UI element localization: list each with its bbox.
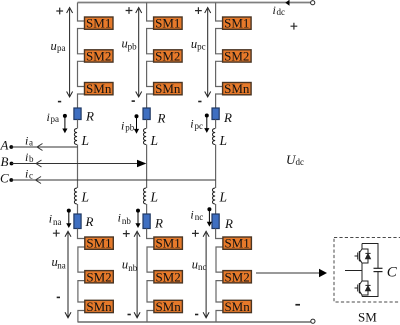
- svg-text:nc: nc: [195, 212, 204, 222]
- arrowhead i_a: [37, 144, 43, 151]
- SM1 lower arm c: [223, 236, 252, 251]
- svg-text:a: a: [29, 138, 33, 148]
- svg-text:i: i: [25, 150, 28, 164]
- wire: L to R lower c: [215, 204, 217, 214]
- SMn upper arm a: [85, 81, 114, 96]
- wire: SM cell frame: [345, 244, 378, 297]
- wire: phase-a middle leg: [77, 145, 79, 189]
- svg-text:pa: pa: [57, 43, 66, 53]
- inductor L lower a: [74, 188, 77, 204]
- wire: line C: [11, 179, 215, 181]
- bottom DC bus: [78, 321, 311, 323]
- SM2 upper arm c: [223, 49, 252, 64]
- plus sign DC: [291, 23, 298, 30]
- svg-text:R: R: [85, 214, 94, 229]
- capacitor C: [374, 267, 383, 269]
- i_dc arrow: [285, 0, 289, 6]
- svg-text:i: i: [25, 134, 28, 148]
- SM2 lower arm a: [85, 269, 114, 284]
- inductor L upper b: [143, 129, 146, 145]
- SMn lower arm b: [154, 299, 183, 314]
- minus sign DC: [295, 304, 300, 306]
- svg-text:pa: pa: [51, 114, 60, 124]
- IGBT T2: [355, 280, 363, 297]
- svg-text:R: R: [223, 110, 232, 125]
- resistor R lower b: [143, 214, 150, 229]
- plus sign lower c: [192, 230, 199, 237]
- svg-text:na: na: [57, 260, 65, 270]
- wire: line B: [12, 163, 139, 165]
- svg-text:u: u: [192, 258, 198, 272]
- wire: R to L upper b: [146, 120, 148, 129]
- minus sign lower c: [195, 314, 198, 316]
- inductor L lower c: [212, 188, 215, 204]
- SM2 upper arm b: [154, 49, 183, 64]
- wire: phase-a lower leg: [78, 229, 85, 323]
- u_pc measure arrow: [205, 8, 211, 98]
- wire: phase-a upper leg: [78, 3, 85, 109]
- arrowhead line B into leg: [137, 160, 146, 167]
- svg-text:nb: nb: [128, 263, 138, 273]
- resistor R lower c: [212, 214, 219, 229]
- plus sign upper b: [126, 7, 133, 14]
- svg-text:na: na: [53, 217, 62, 227]
- i_pa indicator: [62, 114, 67, 133]
- svg-text:R: R: [154, 216, 163, 231]
- svg-text:pc: pc: [195, 121, 204, 131]
- plus sign upper c: [195, 7, 202, 14]
- minus sign upper a: [58, 101, 61, 103]
- minus sign upper b: [132, 100, 135, 102]
- svg-text:pc: pc: [197, 41, 206, 51]
- resistor R upper a: [74, 108, 81, 120]
- wire: L to R lower a: [77, 204, 79, 214]
- wire: phase-b middle leg: [146, 145, 148, 189]
- inductor L lower b: [143, 188, 146, 204]
- SM1 lower arm a: [85, 236, 114, 251]
- resistor R lower a: [74, 214, 81, 229]
- plus sign upper a: [56, 8, 63, 15]
- svg-text:b: b: [29, 154, 34, 164]
- u_nc measure arrow: [203, 231, 209, 317]
- wire: L to R lower b: [146, 204, 148, 214]
- svg-text:i: i: [273, 3, 276, 17]
- svg-text:nc: nc: [198, 262, 207, 272]
- svg-text:nb: nb: [122, 216, 131, 226]
- i_nc indicator: [207, 207, 212, 226]
- inductor L upper a: [74, 129, 77, 145]
- svg-text:R: R: [157, 110, 166, 125]
- plus sign lower a: [53, 230, 60, 237]
- SM2 lower arm b: [154, 269, 183, 284]
- resistor R upper b: [143, 108, 150, 120]
- SMn lower arm c: [223, 299, 252, 314]
- SM2 lower arm c: [223, 269, 252, 284]
- svg-text:L: L: [219, 133, 228, 148]
- svg-text:C: C: [387, 265, 398, 281]
- IGBT T1: [355, 244, 363, 265]
- wire: phase-c middle leg: [215, 145, 217, 189]
- svg-text:pb: pb: [128, 42, 138, 52]
- svg-text:L: L: [150, 190, 159, 205]
- plus sign lower b: [123, 230, 130, 237]
- svg-text:L: L: [219, 190, 228, 205]
- u_pa measure arrow: [67, 8, 73, 98]
- SM1 lower arm b: [154, 236, 183, 251]
- svg-text:R: R: [224, 216, 233, 231]
- svg-text:B: B: [1, 154, 9, 169]
- arrowhead i_b: [36, 160, 42, 167]
- u_pb measure arrow: [136, 8, 142, 98]
- minus sign upper c: [198, 101, 201, 103]
- inductor L upper c: [212, 129, 215, 145]
- svg-text:SM: SM: [358, 310, 377, 325]
- resistor R upper c: [212, 108, 219, 120]
- i_na indicator: [66, 209, 71, 228]
- wire: phase-b lower leg: [147, 229, 154, 323]
- svg-text:L: L: [81, 190, 90, 205]
- diode D1: [362, 249, 371, 263]
- minus sign lower a: [57, 297, 60, 299]
- minus sign lower b: [128, 314, 131, 316]
- svg-text:pb: pb: [125, 123, 135, 133]
- wire: phase-c lower leg: [216, 229, 223, 323]
- svg-text:C: C: [0, 171, 9, 186]
- svg-text:L: L: [81, 133, 90, 148]
- svg-text:R: R: [85, 109, 94, 124]
- wire: phase-c upper leg: [216, 3, 223, 109]
- arrowhead i_c: [36, 177, 42, 184]
- wire: line A: [11, 146, 77, 148]
- SMn upper arm c: [223, 81, 252, 96]
- wire: R to L upper a: [77, 120, 79, 129]
- wire: R to L upper c: [215, 120, 217, 129]
- svg-text:u: u: [51, 39, 57, 53]
- svg-text:L: L: [150, 133, 159, 148]
- svg-text:dc: dc: [277, 7, 286, 17]
- u_na measure arrow: [65, 231, 71, 317]
- svg-text:i: i: [25, 167, 28, 181]
- SM2 upper arm a: [85, 49, 114, 64]
- top DC bus: [78, 2, 311, 4]
- svg-text:i: i: [49, 212, 52, 226]
- i_pc indicator: [204, 114, 209, 133]
- svg-text:i: i: [121, 118, 124, 132]
- SM1 upper arm b: [154, 16, 183, 31]
- SM1 upper arm a: [85, 16, 114, 31]
- u_nb measure arrow: [134, 231, 140, 317]
- i_nb indicator: [135, 209, 140, 228]
- svg-text:dc: dc: [296, 157, 305, 167]
- top DC terminal: [311, 1, 315, 5]
- wire: phase-b upper leg: [147, 3, 154, 109]
- arrow to SM detail: [256, 272, 320, 274]
- svg-text:c: c: [29, 171, 33, 181]
- SM detail dashed box: [334, 238, 400, 303]
- SMn upper arm b: [154, 81, 183, 96]
- svg-text:i: i: [190, 207, 193, 221]
- svg-text:i: i: [190, 117, 193, 131]
- svg-text:i: i: [118, 211, 121, 225]
- bottom DC terminal: [311, 319, 315, 323]
- diode D2: [362, 281, 371, 295]
- svg-text:A: A: [0, 138, 9, 153]
- svg-text:i: i: [47, 110, 50, 124]
- i_pb indicator: [134, 114, 139, 133]
- SM1 upper arm c: [223, 16, 252, 31]
- SMn lower arm a: [85, 299, 114, 314]
